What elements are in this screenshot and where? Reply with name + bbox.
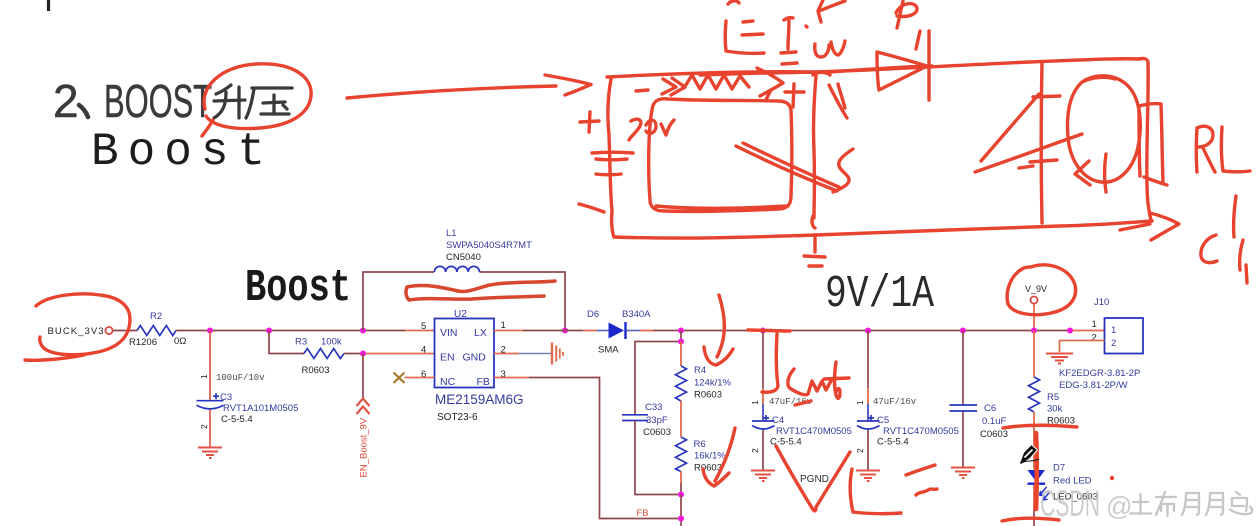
svg-text:ME2159AM6G: ME2159AM6G	[435, 392, 524, 407]
svg-text:EDG-3.81-2P/W: EDG-3.81-2P/W	[1059, 380, 1128, 391]
power port V_9V	[1025, 284, 1047, 331]
inductor L1	[434, 228, 532, 272]
hand sketch inner loop	[649, 99, 792, 212]
hand annotation long arrow to sketch	[347, 75, 591, 98]
svg-text:9V/1A: 9V/1A	[825, 269, 934, 320]
hand sketch switch ground	[804, 256, 825, 266]
hand annotation down arrow 1	[704, 295, 733, 365]
svg-text:2: 2	[199, 424, 209, 429]
wire L1 top loop	[363, 272, 565, 331]
wire R4 to R6	[680, 401, 682, 437]
hand sketch plus near inductor	[785, 84, 804, 107]
svg-text:D7: D7	[1053, 463, 1065, 474]
svg-text:B340A: B340A	[622, 309, 651, 320]
LED D7	[1028, 463, 1098, 503]
hand annotation bottom wavy	[1002, 518, 1059, 521]
wire D6 to output bus	[626, 330, 1105, 332]
ground C5	[856, 471, 880, 482]
svg-text:L1: L1	[446, 228, 457, 239]
port BUCK_3V3	[48, 326, 113, 337]
wire R6 bottom	[680, 472, 682, 495]
svg-text:C5: C5	[877, 415, 889, 426]
svg-text:KF2EDGR-3.81-2P: KF2EDGR-3.81-2P	[1059, 368, 1140, 379]
svg-text:C33: C33	[645, 402, 662, 413]
hand sketch battery left rail	[608, 79, 614, 237]
wire divider to FB rail	[680, 495, 682, 526]
svg-text:1: 1	[1092, 319, 1097, 330]
resistor R2	[129, 311, 186, 348]
hand note L equals	[725, 21, 764, 53]
node junction LX-L1	[562, 328, 568, 334]
wire C6 branch	[962, 331, 964, 468]
resistor R6	[676, 437, 727, 474]
svg-text:GND: GND	[463, 352, 487, 364]
svg-text:R0603: R0603	[302, 365, 330, 376]
node junction V_9V	[1031, 328, 1037, 334]
svg-text:124k/1%: 124k/1%	[694, 378, 732, 389]
svg-text:J10: J10	[1094, 297, 1109, 308]
svg-text:RVT1C470M0505: RVT1C470M0505	[776, 426, 852, 437]
svg-text:2: 2	[855, 448, 865, 453]
svg-text:C4: C4	[772, 415, 784, 426]
node junction C5 tap	[865, 328, 871, 334]
capacitor C6	[950, 403, 1009, 440]
svg-text:SWPA5040S4R7MT: SWPA5040S4R7MT	[446, 240, 532, 251]
hand annotation squiggle over L1	[406, 281, 555, 300]
node junction D6 out	[678, 328, 684, 334]
svg-text:RVT1C470M0505: RVT1C470M0505	[883, 426, 959, 437]
hand sketch outer loop top wire	[607, 59, 1140, 77]
hand sketch right rail	[1138, 58, 1151, 220]
svg-text:R2: R2	[150, 311, 162, 322]
ground J10	[1046, 354, 1073, 364]
svg-text:2: 2	[750, 448, 760, 453]
hand annotation L mark	[850, 469, 901, 514]
hand sketch arrows to load	[975, 94, 1082, 172]
connector J10	[1059, 297, 1143, 391]
node junction R3 tap	[266, 328, 272, 334]
hand note 3.0V	[629, 119, 674, 140]
wire BUCK_3V3 to R2	[113, 330, 137, 332]
hand note C bracket	[1201, 196, 1243, 270]
svg-text:FB: FB	[477, 376, 490, 388]
svg-text:U2: U2	[454, 309, 467, 320]
svg-text:EN: EN	[440, 352, 455, 364]
no-connect X on pin 6	[394, 373, 435, 384]
ground C6	[951, 468, 975, 479]
IC U2 ME2159AM6G	[421, 309, 524, 423]
wire LX to D6	[494, 330, 609, 332]
hand sketch load circle	[1068, 76, 1141, 182]
hand sketch bottom wire	[614, 221, 1152, 238]
power ground symbol pin 2	[552, 343, 563, 365]
wire R3 branch	[269, 331, 435, 354]
hand note I	[781, 18, 807, 64]
heading Boost mono	[91, 126, 274, 178]
svg-text:EN_Boost_9V: EN_Boost_9V	[359, 417, 370, 477]
label 9V/1A	[825, 269, 934, 320]
hand sketch left tail dash	[579, 204, 604, 212]
hand annotation vertical over LED wire	[1034, 433, 1039, 509]
svg-text:C3: C3	[220, 392, 232, 403]
svg-text:CN5040: CN5040	[446, 252, 481, 263]
hand annotation T mark	[748, 330, 790, 392]
hand sketch minus dash	[636, 90, 648, 91]
capacitor C4	[750, 397, 852, 453]
svg-text:1: 1	[501, 320, 506, 331]
svg-text:R0603: R0603	[694, 463, 722, 474]
net label FB	[637, 508, 649, 519]
svg-text:C0603: C0603	[980, 429, 1008, 440]
diode D6 B340A	[587, 309, 651, 356]
svg-text:PGND: PGND	[800, 474, 829, 485]
hand sketch switch branch vertical	[812, 76, 816, 252]
svg-text:R5: R5	[1047, 392, 1059, 403]
hand annotation vertical tick right edge	[1246, 265, 1247, 283]
node junction L1 left tap	[360, 328, 366, 334]
heading CJK ya	[246, 88, 292, 118]
svg-text:C-5-5.4: C-5-5.4	[221, 414, 253, 425]
title cursor bar	[47, 0, 50, 11]
hand annotation circle around heading	[202, 64, 311, 136]
svg-text:SOT23-6: SOT23-6	[437, 412, 478, 423]
node junction J10 tap	[1067, 328, 1073, 334]
capacitor C3	[197, 373, 299, 429]
hand annotation red dot	[1110, 476, 1114, 480]
ground C4	[751, 471, 775, 482]
svg-text:0.1uF: 0.1uF	[982, 416, 1006, 427]
svg-text:R1206: R1206	[129, 337, 157, 348]
svg-text:CSDN: CSDN	[1040, 483, 1100, 524]
svg-text:FB: FB	[637, 508, 649, 519]
wire J10 pin 2 to ground	[1060, 341, 1105, 353]
wire FB net from pin 3	[494, 378, 681, 519]
svg-text:LX: LX	[474, 327, 487, 339]
hand sketch switch blade	[736, 84, 853, 192]
svg-text:47uF/16v: 47uF/16v	[873, 397, 917, 407]
svg-text:1: 1	[199, 374, 209, 379]
hand sketch capacitor branch	[1019, 62, 1060, 223]
wire C33 R4 loop top	[635, 331, 681, 415]
svg-text:D6: D6	[587, 309, 599, 320]
hand sketch RL box	[1139, 104, 1167, 185]
svg-text:100uF/10v: 100uF/10v	[216, 373, 265, 383]
wire C3 branch	[209, 331, 211, 448]
hand annotation V mark	[776, 446, 850, 511]
svg-text:C0603: C0603	[643, 427, 671, 438]
svg-text:0Ω: 0Ω	[174, 336, 186, 347]
svg-text:2: 2	[53, 75, 79, 127]
pen cursor	[1020, 445, 1040, 465]
svg-text:100k: 100k	[321, 337, 342, 348]
watermark CSDN	[1040, 483, 1132, 524]
resistor R5	[1029, 377, 1076, 427]
svg-text:33pF: 33pF	[646, 415, 668, 426]
svg-text:1: 1	[750, 400, 760, 405]
wire C4 branch	[762, 331, 764, 471]
label PGND	[800, 474, 829, 485]
hand note uv	[815, 41, 845, 57]
hand sketch load arrow marks	[1075, 154, 1106, 192]
net label EN_Boost_9V with chevron	[357, 399, 370, 478]
hand sketch diode	[877, 31, 929, 100]
hand annotation down arrow 2	[703, 428, 735, 486]
wire R5 branch	[1033, 331, 1035, 378]
wire GND pin 2	[494, 353, 551, 355]
hand sketch bottom right arrow	[1120, 213, 1179, 240]
heading CJK sheng	[214, 85, 245, 118]
heading text 2 BOOST	[53, 75, 212, 127]
svg-text:NC: NC	[440, 376, 456, 388]
svg-text:BOOST: BOOST	[104, 75, 212, 127]
wire C33 loop bottom	[635, 421, 681, 495]
watermark CJK handle	[1130, 492, 1252, 516]
svg-text:1: 1	[1111, 325, 1116, 336]
svg-text:1: 1	[855, 400, 865, 405]
svg-text:RVT1A101M0505: RVT1A101M0505	[223, 403, 298, 414]
hand annotation circle around BUCK_3V3	[25, 294, 130, 360]
ground C3	[198, 448, 222, 459]
hand sketch stray marks top	[728, 0, 920, 49]
hand note Sat	[788, 362, 849, 405]
capacitor C5	[855, 397, 959, 453]
node junction C3 tap	[207, 328, 213, 334]
svg-text:BUCK_3V3: BUCK_3V3	[48, 326, 104, 337]
hand sketch battery	[580, 112, 633, 175]
resistor R3	[295, 337, 344, 377]
wire C5 branch	[867, 331, 869, 471]
svg-text:5: 5	[421, 321, 426, 332]
svg-text:2: 2	[1092, 333, 1097, 344]
wire main input bus	[176, 330, 435, 332]
hand note RL	[1196, 126, 1250, 172]
svg-text:2: 2	[1111, 338, 1116, 349]
schematic title Boost	[245, 263, 351, 314]
node junction FB divider	[678, 492, 684, 498]
hand annotation circle around V_9V	[1007, 265, 1075, 315]
svg-text:Boost: Boost	[91, 126, 274, 178]
resistor R4	[676, 342, 732, 402]
svg-text:R6: R6	[694, 439, 706, 450]
svg-text:30k: 30k	[1047, 404, 1063, 415]
svg-text:@: @	[1106, 491, 1132, 521]
svg-text:V_9V: V_9V	[1025, 284, 1047, 294]
svg-text:C6: C6	[984, 403, 996, 414]
svg-text:Boost: Boost	[245, 263, 351, 314]
svg-text:C-5-5.4: C-5-5.4	[877, 437, 909, 448]
svg-text:R3: R3	[295, 337, 307, 348]
node junction FB rail	[678, 516, 684, 522]
capacitor C33	[622, 402, 671, 438]
wire R5 to D7	[1033, 412, 1035, 470]
node junction C33 tap	[678, 339, 684, 345]
hand sketch inductor zigzag	[662, 68, 783, 100]
wire EN_Boost_9V stub	[362, 354, 364, 400]
hand annotation equals mark	[906, 465, 937, 495]
svg-text:R0603: R0603	[694, 390, 722, 401]
hand sketch wire knot	[813, 72, 830, 75]
node junction C6 tap	[960, 328, 966, 334]
wire D7 bottom	[1033, 485, 1035, 526]
svg-text:4: 4	[421, 345, 426, 356]
svg-text:R4: R4	[694, 365, 706, 376]
svg-text:16k/1%: 16k/1%	[694, 451, 726, 462]
svg-text:SMA: SMA	[598, 345, 619, 356]
svg-text:VIN: VIN	[440, 327, 458, 339]
hand annotation strike over R5	[1003, 425, 1077, 428]
node junction C4 tap	[760, 328, 766, 334]
node junction R3-EN	[360, 351, 366, 357]
